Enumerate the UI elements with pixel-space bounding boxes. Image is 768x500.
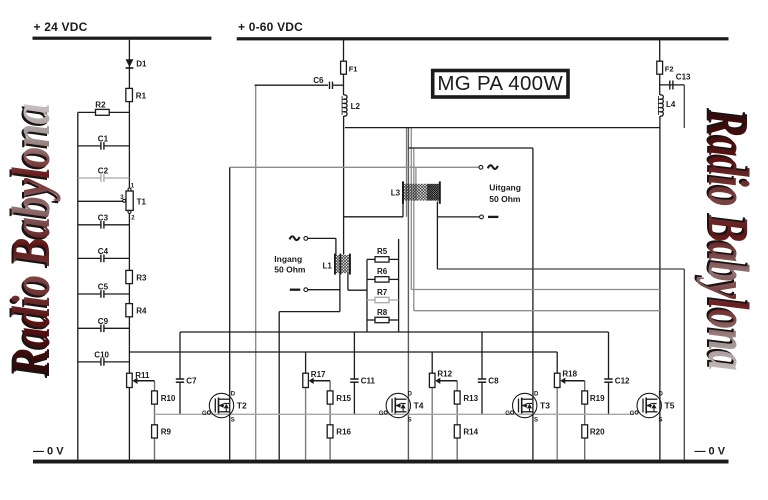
- svg-text:C11: C11: [361, 376, 376, 385]
- svg-text:F2: F2: [665, 65, 674, 74]
- svg-text:T3: T3: [540, 401, 550, 411]
- svg-text:50 Ohm: 50 Ohm: [274, 264, 306, 274]
- svg-text:L3: L3: [391, 189, 401, 198]
- svg-text:MG PA 400W: MG PA 400W: [437, 72, 563, 95]
- svg-text:Uitgang: Uitgang: [489, 182, 521, 192]
- svg-text:— 0 V: — 0 V: [695, 446, 726, 458]
- svg-text:R8: R8: [377, 308, 388, 317]
- svg-text:+ 24 VDC: + 24 VDC: [34, 20, 88, 34]
- svg-text:+ 0-60 VDC: + 0-60 VDC: [238, 20, 303, 34]
- svg-text:R16: R16: [336, 428, 351, 437]
- svg-text:R14: R14: [463, 428, 478, 437]
- svg-text:T5: T5: [665, 401, 675, 411]
- svg-text:D1: D1: [136, 60, 147, 69]
- svg-text:C12: C12: [615, 376, 630, 385]
- svg-text:— 0 V: — 0 V: [33, 446, 64, 458]
- svg-text:R4: R4: [136, 307, 147, 316]
- svg-text:S: S: [659, 417, 663, 423]
- svg-text:D: D: [534, 391, 539, 397]
- svg-text:F1: F1: [349, 65, 358, 74]
- svg-text:R11: R11: [135, 371, 150, 380]
- svg-text:T1: T1: [137, 197, 147, 206]
- svg-text:R19: R19: [590, 394, 605, 403]
- svg-text:G: G: [202, 411, 207, 417]
- svg-text:R10: R10: [161, 394, 176, 403]
- svg-text:S: S: [231, 417, 235, 423]
- svg-text:R6: R6: [377, 267, 388, 276]
- svg-text:C4: C4: [98, 247, 109, 256]
- svg-text:C8: C8: [488, 376, 499, 385]
- svg-text:Radio Babylona: Radio Babylona: [696, 109, 761, 370]
- svg-text:C3: C3: [98, 213, 109, 222]
- svg-text:R12: R12: [437, 370, 452, 379]
- svg-text:C9: C9: [98, 317, 109, 326]
- svg-text:S: S: [534, 417, 538, 423]
- svg-text:R17: R17: [311, 370, 326, 379]
- svg-text:R20: R20: [590, 428, 605, 437]
- svg-text:G: G: [505, 411, 510, 417]
- svg-text:C2: C2: [98, 166, 109, 175]
- svg-text:50 Ohm: 50 Ohm: [489, 194, 521, 204]
- svg-text:D: D: [659, 391, 664, 397]
- svg-text:D: D: [231, 391, 236, 397]
- svg-text:C6: C6: [313, 76, 324, 85]
- svg-text:Ingang: Ingang: [274, 254, 302, 264]
- svg-text:R13: R13: [463, 394, 478, 403]
- svg-text:R1: R1: [136, 92, 147, 101]
- svg-text:C1: C1: [98, 134, 109, 143]
- svg-text:G: G: [379, 411, 384, 417]
- svg-text:R5: R5: [377, 247, 388, 256]
- svg-text:R7: R7: [377, 288, 388, 297]
- svg-text:R15: R15: [336, 394, 351, 403]
- svg-text:C5: C5: [98, 283, 109, 292]
- svg-text:Radio Babylona: Radio Babylona: [1, 104, 61, 377]
- svg-text:R2: R2: [95, 100, 106, 109]
- svg-text:C10: C10: [94, 351, 109, 360]
- svg-text:T4: T4: [414, 401, 424, 411]
- svg-text:G: G: [630, 411, 635, 417]
- svg-text:R3: R3: [136, 273, 147, 282]
- svg-text:C13: C13: [676, 73, 691, 82]
- svg-text:L2: L2: [351, 102, 361, 111]
- svg-text:L4: L4: [666, 100, 676, 109]
- svg-text:R9: R9: [161, 428, 172, 437]
- svg-text:L1: L1: [323, 261, 333, 270]
- svg-text:S: S: [408, 417, 412, 423]
- svg-text:T2: T2: [237, 401, 247, 411]
- svg-text:D: D: [408, 391, 413, 397]
- svg-text:C7: C7: [186, 376, 197, 385]
- svg-text:R18: R18: [562, 370, 577, 379]
